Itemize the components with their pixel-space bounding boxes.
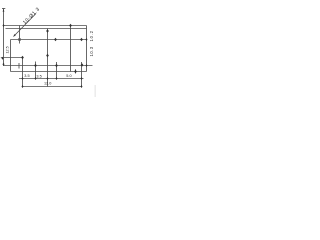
- svg-text:12.0: 12.0: [44, 82, 51, 86]
- svg-text:3.5: 3.5: [36, 74, 41, 78]
- svg-text:5.0: 5.0: [66, 74, 71, 78]
- svg-text:12.5: 12.5: [6, 46, 10, 53]
- svg-text:10.3: 10.3: [89, 46, 94, 56]
- svg-text:3.5: 3.5: [24, 74, 29, 78]
